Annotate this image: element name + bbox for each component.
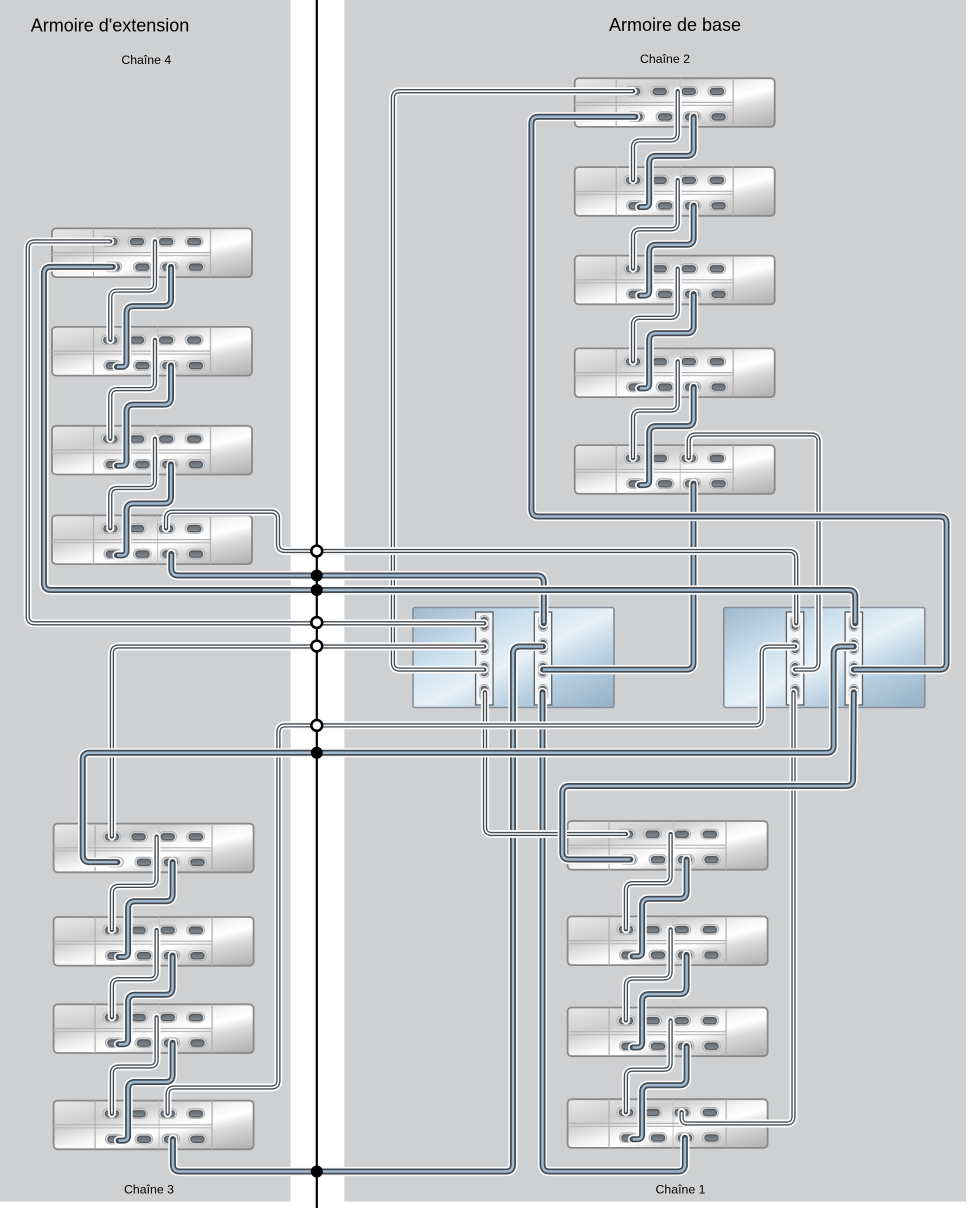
wire chain4 shelf4 topP3 to controller2 C1 — [166, 512, 796, 624]
wire chain2 shelf1 botP3 to shelf2 botP1 — [640, 117, 694, 207]
wire chain2 shelf4 botP3 to shelf5 botP1 — [640, 387, 694, 485]
wire chain4 shelf3 botP3 to shelf4 botP1 — [117, 464, 171, 555]
crossover node (filled) at y=590.0 — [311, 584, 323, 596]
crossover node (filled) at y=575.5 — [311, 570, 323, 582]
disk shelf Chaine3-3 — [54, 1004, 254, 1053]
wire controller1 A2 to chain3 shelf1 topP1 — [112, 647, 484, 837]
wire chain4 shelf2 botP3 to shelf3 botP1 — [117, 365, 171, 465]
wire chain3 shelf2 botP3 to shelf3 botP1 — [119, 956, 173, 1045]
disk shelf Chaine3-4 — [54, 1101, 254, 1150]
disk shelf Chaine2-4 — [575, 348, 775, 397]
wire chain1 shelf1 topP3 to shelf2 topP1 — [626, 834, 671, 929]
svg-text:Armoire d'extension: Armoire d'extension — [31, 16, 190, 36]
disk shelf Chaine3-1 — [54, 824, 254, 873]
wire chain2 shelf3 botP3 to shelf4 botP1 — [640, 294, 694, 388]
wire chain3 shelf4 botP3 to controller1 B2 — [173, 647, 543, 1172]
disk shelf Chaine3-2 — [54, 917, 254, 966]
expansion cabinet panel — [0, 0, 291, 1202]
wire chain4 shelf3 topP3 to shelf4 topP1 — [110, 439, 155, 529]
disk shelf Chaine2-3 — [575, 256, 775, 305]
svg-text:Chaîne 3: Chaîne 3 — [124, 1183, 174, 1197]
wire chain2 shelf2 topP3 to shelf3 topP1 — [633, 180, 678, 269]
disk shelf Chaine4-2 — [52, 327, 252, 376]
wire controller2 D2 to chain3 shelf1 botP1 — [83, 647, 854, 863]
wire chain3 shelf1 topP3 to shelf2 topP1 — [112, 837, 157, 930]
wire controller2 C2 to chain3 shelf4 topP3 — [168, 647, 796, 1114]
disk shelf Chaine4-4 — [52, 515, 252, 564]
wire chain2 shelf2 botP3 to shelf3 botP1 — [640, 206, 694, 296]
wire chain2 shelf1 botP1 to controller2 D3 — [531, 117, 946, 670]
disk shelf Chaine1-1 — [568, 821, 768, 870]
wire chain4 shelf1 topP1 to controller1 A1 — [28, 241, 485, 623]
wire chain2 shelf5 topP3 to controller2 C3 — [689, 435, 819, 670]
wire controller2 D4 to chain1 shelf1 botP1 — [562, 692, 854, 859]
disk shelf Chaine4-1 — [52, 228, 252, 277]
wire chain3 shelf3 topP3 to shelf4 topP1 — [112, 1017, 157, 1113]
wire chain2 shelf1 topP1 to controller1 A3 — [393, 91, 633, 669]
base cabinet panel — [344, 0, 966, 1202]
controller 1 — [413, 608, 614, 708]
wire chain1 shelf1 botP3 to shelf2 botP1 — [633, 860, 687, 957]
wire chain4 shelf1 botP3 to shelf2 botP1 — [117, 267, 171, 367]
wire chain4 shelf1 botP1 to controller2 D1 — [44, 267, 855, 623]
wire chain1 shelf3 botP3 to shelf4 botP1 — [633, 1046, 687, 1139]
wire chain3 shelf1 botP3 to shelf2 botP1 — [119, 862, 173, 957]
wire chain2 shelf1 topP3 to shelf2 topP1 — [633, 91, 678, 180]
disk shelf Chaine4-3 — [52, 426, 252, 475]
wire chain4 shelf4 botP3 to controller1 B1 — [171, 554, 544, 623]
wire chain3 shelf2 topP3 to shelf3 topP1 — [112, 930, 157, 1017]
wire chain1 shelf2 botP3 to shelf3 botP1 — [633, 955, 687, 1048]
crossover node (filled) at y=1171.5 — [311, 1166, 323, 1178]
controller 2 — [724, 608, 925, 708]
disk shelf Chaine1-3 — [568, 1008, 768, 1057]
svg-text:Chaîne 1: Chaîne 1 — [656, 1183, 706, 1197]
wire chain4 shelf2 topP3 to shelf3 topP1 — [110, 340, 155, 439]
disk shelf Chaine2-2 — [575, 167, 775, 216]
disk shelf Chaine2-5 — [575, 445, 775, 494]
wire controller1 A4 to chain1 shelf1 topP1 — [485, 692, 626, 834]
wire chain1 shelf3 topP3 to shelf4 topP1 — [626, 1021, 671, 1113]
svg-text:Chaîne 4: Chaîne 4 — [121, 53, 171, 67]
crossover node (open) at y=622.5 — [311, 617, 322, 628]
disk shelf Chaine1-2 — [568, 916, 768, 965]
wire chain1 shelf2 topP3 to shelf3 topP1 — [626, 929, 671, 1020]
crossover node (open) at y=551.0 — [311, 546, 322, 557]
disk shelf Chaine2-1 — [575, 78, 775, 127]
wire chain2 shelf4 topP3 to shelf5 topP1 — [633, 361, 678, 458]
wire controller1 B4 to chain1 shelf4 botP3 — [543, 692, 685, 1171]
crossover node (filled) at y=752.8 — [311, 747, 323, 759]
wire chain2 shelf5 botP3 to controller1 B3 — [543, 484, 694, 670]
svg-text:Chaîne 2: Chaîne 2 — [640, 52, 690, 66]
wire chain2 shelf3 topP3 to shelf4 topP1 — [633, 269, 678, 362]
disk shelf Chaine1-4 — [568, 1099, 768, 1148]
wire chain4 shelf1 topP3 to shelf2 topP1 — [110, 241, 155, 340]
cabinet boundary line — [316, 0, 318, 1208]
wire chain3 shelf3 botP3 to shelf4 botP1 — [119, 1043, 173, 1141]
wire chain1 shelf4 topP3 to controller2 C4 — [682, 692, 794, 1123]
crossover node (open) at y=725.4 — [311, 720, 322, 731]
crossover node (open) at y=646.0 — [311, 641, 322, 652]
svg-text:Armoire de base: Armoire de base — [609, 15, 741, 35]
